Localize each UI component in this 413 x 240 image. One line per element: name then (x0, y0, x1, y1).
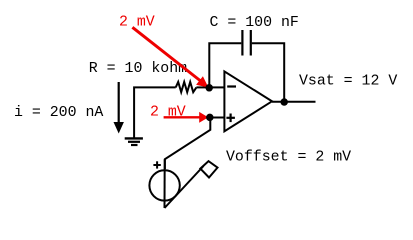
wire: feedback top from inverting node riser to cap left plate (209, 43, 241, 87)
op-amp plus sign (226, 114, 235, 123)
op-amp non-inverting input wire (210, 117, 224, 119)
voltage source stem through circle (164, 159, 166, 208)
red annotation arrow to non-inverting input (horizontal) (164, 112, 209, 123)
svg-text:i = 200 nA: i = 200 nA (14, 105, 103, 121)
op-amp minus sign (227, 85, 236, 87)
wire: cap right plate to output riser (252, 43, 284, 102)
wire: non-inverting node down-diagonal to source plus terminal (165, 118, 210, 170)
node: non-inverting input junction dot (206, 114, 214, 122)
wire: ground corner to resistor left lead (134, 87, 176, 138)
node: output junction dot (280, 98, 288, 106)
wire: resistor right lead to inverting node (196, 86, 209, 88)
svg-text:2 mV: 2 mV (119, 15, 155, 31)
op-amp U1 triangle (224, 71, 272, 131)
node: inverting input junction dot (205, 84, 213, 92)
ground symbol (125, 138, 143, 145)
capacitor C1 plates (241, 30, 243, 56)
voltage source V1 circle (149, 170, 179, 200)
svg-text:C = 100 nF: C = 100 nF (210, 15, 299, 31)
svg-text:2 mV: 2 mV (150, 104, 186, 120)
voltage reference arrow (open head) from source bottom (165, 161, 218, 208)
svg-text:Vsat = 12 V: Vsat = 12 V (299, 74, 397, 90)
op-amp inverting input wire (209, 86, 224, 88)
svg-text:R = 10 kohm: R = 10 kohm (89, 61, 187, 77)
current source annotation arrow i (down) (114, 82, 124, 134)
resistor R1 zigzag body (176, 82, 197, 92)
wire: op-amp output to Vsat lead (272, 101, 316, 103)
red annotation arrow to inverting input (diagonal) (132, 27, 208, 87)
svg-text:Voffset = 2 mV: Voffset = 2 mV (226, 150, 351, 166)
voltage source plus polarity mark (153, 161, 160, 168)
